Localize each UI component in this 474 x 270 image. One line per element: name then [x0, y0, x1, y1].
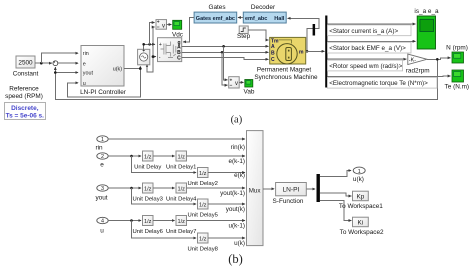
svg-text:Unit Delay7: Unit Delay7	[166, 229, 196, 235]
hall bus selector	[313, 24, 316, 36]
svg-text:u(k-1): u(k-1)	[229, 222, 245, 229]
svg-text:Ts = 5e-06 s.: Ts = 5e-06 s.	[6, 112, 45, 119]
step block	[237, 26, 251, 40]
svg-text:Unit Delay4: Unit Delay4	[166, 196, 197, 202]
svg-text:LN-PI Controller: LN-PI Controller	[80, 89, 127, 96]
svg-text:Constant: Constant	[13, 71, 39, 78]
svg-text:1/z: 1/z	[144, 155, 152, 161]
svg-text:N (rpm): N (rpm)	[446, 45, 468, 52]
svg-text:Gates: Gates	[208, 4, 225, 11]
svg-text:Reference: Reference	[9, 86, 39, 93]
wire gates to inverter g	[183, 18, 194, 42]
unit delay UD3	[132, 183, 163, 202]
svg-text:emf_abc: emf_abc	[213, 16, 235, 22]
svg-text:u: u	[100, 228, 104, 235]
inverter bridge	[158, 38, 182, 62]
wire rin to mux	[108, 138, 245, 140]
wire V1 plus tap	[150, 23, 155, 45]
wire V1 minus tap	[153, 26, 155, 28]
wire u branch to UD8	[132, 221, 197, 239]
unit delay UD1	[166, 151, 196, 170]
svg-text:1/z: 1/z	[199, 171, 207, 177]
wire inverter minus feed	[152, 55, 156, 58]
wire m to bus selector	[306, 50, 325, 52]
display Te	[445, 70, 470, 90]
svg-text:A: A	[271, 44, 275, 50]
sum junction	[53, 61, 58, 66]
voltage measurement V1	[156, 20, 167, 30]
svg-text:C: C	[177, 56, 181, 62]
Decoder block	[243, 4, 286, 23]
svg-text:<Stator current is_a (A)>: <Stator current is_a (A)>	[329, 28, 398, 35]
annotation Reference speed (RPM)	[5, 86, 43, 101]
unit delay UD	[134, 151, 161, 170]
svg-text:To Workspace2: To Workspace2	[340, 229, 384, 236]
svg-text:e(k): e(k)	[234, 172, 245, 179]
svg-text:Unit Delay5: Unit Delay5	[187, 212, 218, 218]
svg-text:m: m	[299, 50, 304, 56]
wire V1 to Vdc display	[167, 24, 172, 26]
wire UD3 to UD4	[153, 187, 175, 189]
svg-text:3: 3	[101, 186, 104, 192]
wire rin branch	[41, 53, 78, 63]
svg-text:v: v	[162, 23, 165, 29]
wire phase B	[182, 51, 269, 54]
svg-text:2: 2	[101, 154, 104, 160]
wire mux to LN-PI	[263, 188, 274, 190]
unit delay UD8	[187, 233, 218, 252]
svg-text:yout(k): yout(k)	[226, 206, 245, 213]
out port 1 u(k)	[353, 167, 365, 183]
unit delay UD7	[166, 216, 196, 235]
wire B tap to Vab minus	[222, 52, 228, 85]
wire u feedback loop	[68, 69, 141, 97]
wire hall from bus to decoder	[288, 18, 320, 52]
svg-text:u(k): u(k)	[113, 67, 122, 73]
svg-text:4: 4	[101, 219, 104, 225]
svg-text:Kp: Kp	[356, 194, 364, 201]
svg-text:e: e	[83, 61, 86, 67]
signal label rotor speed	[327, 59, 406, 71]
Ki block	[340, 217, 384, 236]
wire demux to out port u(k)	[320, 171, 351, 177]
svg-text:Unit Delay1: Unit Delay1	[166, 164, 196, 170]
wire CVS minus loop	[147, 27, 153, 72]
svg-text:Mux: Mux	[249, 188, 262, 195]
signal label stator current	[327, 24, 415, 36]
svg-text:Decoder: Decoder	[251, 4, 276, 11]
svg-text:Hall: Hall	[274, 16, 285, 22]
svg-text:is_a e_a: is_a e_a	[414, 8, 439, 15]
svg-text:1/z: 1/z	[199, 203, 207, 209]
svg-text:Unit Delay: Unit Delay	[134, 164, 161, 170]
bus selector bar	[325, 16, 327, 88]
wire A tap to Vab plus	[224, 46, 228, 80]
svg-text:1/z: 1/z	[144, 187, 152, 193]
unit delay UD4	[166, 183, 197, 202]
unit delay UD2	[187, 168, 217, 187]
svg-text:1/z: 1/z	[177, 219, 185, 225]
wire UD5 to mux yout(k)	[208, 203, 245, 205]
wire yout branch to UD5	[132, 188, 197, 204]
svg-text:v: v	[235, 81, 238, 87]
svg-text:Unit Delay6: Unit Delay6	[132, 229, 163, 235]
svg-text:<Electromagnetic torque Te (N*: <Electromagnetic torque Te (N*m)>	[329, 80, 428, 87]
wire phase A	[182, 45, 269, 48]
Kp block	[339, 191, 383, 210]
signal label stator back EMF	[327, 41, 415, 53]
svg-text:Synchronous Machine: Synchronous Machine	[254, 74, 318, 81]
wire demux to Ki	[320, 200, 351, 220]
svg-text:S-Function: S-Function	[273, 198, 304, 205]
svg-text:Unit Delay8: Unit Delay8	[187, 246, 218, 252]
wire yout feedback from rad2rpm	[54, 59, 437, 99]
svg-text:(b): (b)	[228, 252, 243, 266]
svg-text:Te (N.m): Te (N.m)	[445, 83, 470, 90]
demux bar	[317, 174, 320, 202]
annotation Discrete Ts = 5e-06 s	[5, 103, 46, 120]
svg-text:e(k-1): e(k-1)	[229, 158, 245, 165]
Gates block	[194, 4, 237, 23]
svg-text:Step: Step	[237, 33, 251, 40]
controlled voltage source	[138, 49, 150, 65]
svg-text:2500: 2500	[18, 60, 33, 67]
port 3 yout	[95, 185, 108, 202]
svg-text:-: -	[159, 55, 161, 61]
display N rpm	[446, 45, 468, 64]
svg-text:1: 1	[101, 137, 104, 143]
svg-text:+: +	[159, 42, 162, 48]
LN-PI S-Function	[273, 183, 307, 206]
wire phase C	[182, 58, 269, 60]
PMSM machine	[254, 37, 318, 81]
scope Vab	[244, 80, 255, 96]
svg-text:yout: yout	[83, 71, 94, 77]
wire UD7 to mux u(k-1)	[187, 220, 246, 222]
svg-text:rad2rpm: rad2rpm	[406, 67, 430, 74]
wire sum to e input	[58, 62, 78, 64]
wire demux to Kp	[320, 193, 351, 196]
unit delay UD5	[187, 199, 218, 218]
gain rad2rpm	[406, 54, 430, 74]
wire UD4 to mux yout(k-1)	[187, 187, 246, 189]
wire u to UD6	[108, 219, 141, 222]
svg-text:1/z: 1/z	[177, 187, 185, 193]
svg-text:Unit Delay2: Unit Delay2	[187, 181, 217, 187]
display Vdc	[172, 20, 184, 38]
wire LN-PI to demux	[306, 188, 315, 190]
svg-text:emf_abc: emf_abc	[245, 16, 267, 22]
svg-text:Gates: Gates	[196, 16, 211, 22]
svg-text:1/z: 1/z	[199, 237, 207, 243]
wire gain to N display	[427, 58, 451, 61]
svg-text:Ki: Ki	[358, 220, 364, 227]
port 1 rin	[95, 136, 108, 152]
svg-text:Vab: Vab	[244, 88, 255, 95]
wire u(k) output to CVS	[124, 66, 142, 70]
wire UD2 to mux e(k)	[208, 172, 245, 174]
wire step to Tm	[248, 30, 268, 40]
svg-text:1: 1	[358, 169, 361, 175]
wire yout to UD3	[108, 187, 141, 190]
voltage measurement V2	[229, 77, 240, 88]
svg-text:Unit Delay3: Unit Delay3	[132, 196, 163, 202]
wire UD1 to mux e(k-1)	[187, 155, 246, 157]
svg-text:yout: yout	[95, 195, 107, 202]
wire e branch to UD2	[132, 156, 197, 173]
svg-text:rin: rin	[95, 145, 103, 152]
svg-text:B: B	[271, 51, 275, 57]
svg-text:rin: rin	[83, 51, 89, 57]
wire DC plus rail	[142, 43, 155, 49]
wire constant to sum	[35, 62, 52, 65]
port 2 e	[97, 153, 108, 169]
scope is_a e_a	[414, 8, 439, 49]
mux block	[247, 131, 264, 246]
signal label electromagnetic torque	[327, 76, 450, 88]
wire e to unit delay	[108, 155, 141, 158]
port 4 u	[97, 217, 108, 234]
svg-text:<Rotor speed wm (rad/s)>: <Rotor speed wm (rad/s)>	[329, 63, 402, 70]
unit delay UD6	[132, 216, 163, 235]
svg-text:To Workspace1: To Workspace1	[339, 203, 383, 210]
LN-PI Controller U1	[80, 46, 127, 96]
svg-text:(a): (a)	[231, 115, 243, 126]
wire V2 to Vab scope	[239, 81, 243, 83]
svg-text:rin(k): rin(k)	[231, 144, 245, 151]
svg-text:C: C	[271, 57, 275, 63]
svg-text:1/z: 1/z	[177, 155, 185, 161]
svg-text:speed (RPM): speed (RPM)	[5, 93, 43, 100]
svg-text:-K-: -K-	[409, 58, 416, 64]
svg-text:Discrete,: Discrete,	[11, 105, 39, 112]
constant block 2500	[13, 56, 39, 78]
svg-text:yout(k-1): yout(k-1)	[220, 190, 245, 197]
svg-text:u: u	[83, 81, 86, 87]
svg-text:u(k): u(k)	[353, 176, 364, 183]
svg-text:e: e	[100, 162, 104, 169]
svg-text:Permanent Magnet: Permanent Magnet	[257, 67, 312, 74]
svg-text:1/z: 1/z	[144, 219, 152, 225]
wire UD to UD1	[153, 155, 175, 157]
svg-text:u(k): u(k)	[234, 240, 245, 247]
svg-text:LN-PI: LN-PI	[282, 187, 299, 194]
wire UD6 to UD7	[153, 220, 175, 222]
svg-text:<Stator back EMF e_a (V)>: <Stator back EMF e_a (V)>	[329, 45, 406, 52]
wire UD8 to mux u(k)	[208, 237, 245, 239]
wire decoder to gates	[238, 17, 243, 19]
